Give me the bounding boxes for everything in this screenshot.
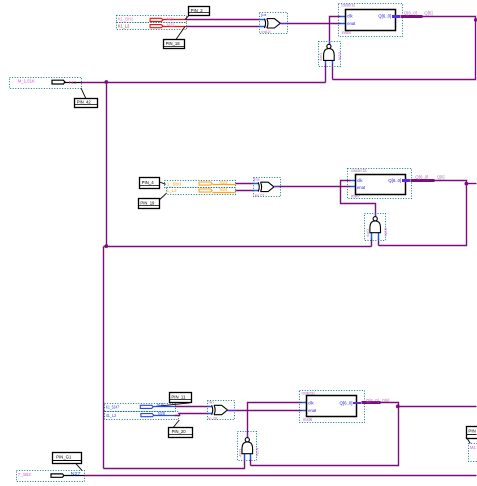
wire pin4 to xor2 in1 — [236, 183, 254, 185]
svg-text:Q[6..0]: Q[6..0] — [404, 11, 417, 16]
svg-text:PIN_20: PIN_20 — [172, 429, 187, 434]
nand2 input risers — [371, 239, 373, 247]
svg-text:clk: clk — [357, 178, 363, 183]
xor3 output stub — [228, 410, 236, 412]
nand gate U3 — [319, 42, 342, 67]
input pin PIN_4 symbol — [199, 180, 235, 185]
svg-text:4c0: 4c0 — [238, 449, 242, 457]
svg-text:Q[6]: Q[6] — [424, 11, 432, 16]
wire clock horizontal row3 — [104, 460, 245, 469]
bus Q[6..0] row1 — [401, 15, 423, 18]
svg-text:4c0: 4c0 — [319, 53, 323, 61]
svg-text:Q[6..0]: Q[6..0] — [378, 13, 391, 18]
callout PIN_18 — [164, 27, 185, 49]
svg-text:M1: M1 — [470, 445, 477, 450]
xor gate U4 — [253, 176, 281, 197]
counter U5 (counter:b2) — [348, 168, 412, 199]
input pin PIN_G1 symbol — [51, 471, 85, 477]
callout PIN_19 — [139, 193, 167, 209]
callout PIN_42 — [75, 88, 98, 107]
wire xor1 out to counter1 ena — [287, 23, 341, 25]
node clock highlight box — [10, 78, 82, 89]
nand1 input risers — [325, 65, 327, 83]
wire clock vertical lower — [103, 247, 105, 469]
counter U8 (counter:b3) — [300, 390, 365, 422]
counter3 Q port connector — [353, 402, 361, 404]
nand1 output stub — [329, 41, 331, 45]
svg-text:N26: N26 — [158, 411, 166, 416]
nand gate U9 — [238, 432, 260, 461]
xor gate U1 — [260, 12, 288, 34]
svg-text:K1_BH2: K1_BH2 — [118, 17, 134, 22]
svg-text:N1: N1 — [69, 80, 78, 85]
wire Q[6] tap row1 — [333, 17, 476, 80]
wire clock horizontal row2 — [104, 246, 372, 248]
svg-text:b2N: b2N — [337, 52, 341, 60]
bus Q[6..0] row3 — [362, 401, 381, 404]
svg-text:PIN_2: PIN_2 — [191, 8, 204, 13]
nand3 input risers — [250, 459, 252, 466]
wire xor3 out to counter3 ena — [236, 410, 302, 412]
svg-text:PIN_G1: PIN_G1 — [56, 455, 72, 460]
svg-text:Q[6..0]: Q[6..0] — [415, 175, 428, 180]
svg-text:1_5b0: 1_5b0 — [167, 181, 182, 186]
bus Q[6..0] row2 — [411, 179, 435, 182]
svg-text:clk: clk — [347, 13, 353, 18]
nand gate U6 — [365, 214, 388, 241]
svg-text:PIN_18: PIN_18 — [166, 41, 181, 46]
svg-text:4b: 4b — [208, 399, 214, 404]
svg-text:in.28: in.28 — [208, 415, 218, 420]
xor2 input stubs — [254, 183, 259, 185]
svg-text:Q[6]: Q[6] — [437, 175, 445, 180]
wire xor2 out to counter2 ena — [280, 186, 351, 188]
node clipped output highlight box — [469, 444, 477, 462]
svg-text:K1_5247: K1_5247 — [106, 405, 120, 410]
node key3 highlight boxes — [105, 404, 179, 420]
wire clock trunk horizontal row1 — [81, 82, 326, 84]
xor3 input stubs — [209, 406, 213, 408]
svg-text:M_1,51K: M_1,51K — [18, 79, 35, 84]
input pin PIN_20 symbol — [141, 411, 175, 417]
svg-text:N23: N23 — [220, 180, 229, 185]
callout PIN_20 — [169, 420, 193, 438]
wire pin19 to xor2 in2 — [236, 190, 254, 192]
svg-text:N21: N21 — [167, 16, 175, 21]
svg-text:PIN_11: PIN_11 — [171, 394, 186, 399]
counter2 Q port connector — [402, 179, 410, 182]
wire Q[6] tap row3 — [251, 403, 399, 466]
input pin PIN_18 symbol — [150, 23, 186, 28]
input pin PIN_42 symbol — [52, 80, 81, 85]
wire nand2 out to counter2 clk — [341, 181, 376, 214]
svg-text:Q[6..0]: Q[6..0] — [388, 178, 401, 183]
svg-text:clk: clk — [308, 401, 314, 406]
callout PIN (clipped) — [467, 427, 477, 444]
wire pin18 to xor1 in2 — [187, 26, 260, 28]
node key2 highlight boxes — [165, 181, 236, 195]
counter U2 (counter:b1) — [339, 3, 403, 37]
svg-text:N25: N25 — [157, 402, 165, 407]
input pin PIN_2 symbol — [150, 16, 186, 21]
svg-text:7_1B2: 7_1B2 — [18, 472, 32, 477]
nand2 output stub — [375, 214, 377, 217]
svg-text:counter:b2: counter:b2 — [301, 390, 315, 395]
svg-text:PIN_42: PIN_42 — [77, 100, 92, 105]
svg-text:enat: enat — [357, 185, 366, 190]
wire Q[6] tap row2 — [379, 181, 467, 246]
wire nand1 out to counter1 clk — [330, 17, 341, 41]
junction row1 right — [474, 18, 477, 22]
junction clock top — [104, 80, 108, 84]
wire pin20 to xor3 in2 — [175, 414, 209, 416]
counter1 Q port connector — [392, 15, 400, 18]
svg-text:PIN: PIN — [468, 429, 475, 434]
svg-text:b2N: b2N — [255, 448, 259, 456]
input pin PIN_19 symbol — [199, 187, 235, 192]
node bottom pin highlight box — [17, 471, 85, 482]
junction row3 right — [396, 405, 400, 409]
svg-text:ins.Of: ins.Of — [255, 192, 265, 197]
svg-text:counter:b1: counter:b1 — [341, 3, 355, 8]
wire pin11 to xor3 in1 — [175, 406, 209, 408]
node key1 highlight box (dotted) — [117, 16, 187, 30]
callout PIN_11 — [156, 393, 192, 407]
callout PIN_4 — [140, 178, 166, 189]
svg-text:inst2l: inst2l — [262, 29, 271, 34]
svg-text:K1_L2: K1_L2 — [118, 24, 130, 29]
svg-text:41_L2: 41_L2 — [106, 413, 117, 418]
callout PIN_G1 — [53, 453, 83, 471]
svg-text:b2N: b2N — [383, 228, 387, 236]
xor2 output stub — [275, 186, 280, 188]
svg-text:enat: enat — [347, 21, 356, 26]
svg-text:jia: jia — [253, 176, 261, 181]
input pin PIN_11 symbol — [140, 402, 174, 408]
wire pin2 to xor1 in1 — [187, 19, 260, 21]
svg-text:Q[6..0]: Q[6..0] — [366, 398, 379, 403]
svg-text:Q[6..0]: Q[6..0] — [340, 401, 353, 406]
junction clock middle — [104, 244, 108, 248]
wire clock vertical upper — [106, 83, 108, 247]
xor1 output stub — [281, 23, 287, 25]
svg-text:N22: N22 — [167, 23, 175, 28]
xor gate U7 — [208, 399, 235, 420]
wire bottom pin long net — [85, 475, 477, 477]
svg-text:N24: N24 — [220, 187, 229, 192]
svg-text:4c0: 4c0 — [366, 229, 370, 237]
wire nand3 out to counter3 clk — [248, 403, 302, 435]
svg-text:enat: enat — [308, 408, 317, 413]
svg-text:PIN_4: PIN_4 — [142, 180, 155, 185]
xor1 input stubs — [260, 19, 266, 21]
svg-text:PIN_19: PIN_19 — [140, 200, 155, 205]
svg-text:1_L2: 1_L2 — [167, 188, 178, 193]
nand3 output stub — [247, 435, 249, 438]
callout PIN_2 — [185, 7, 210, 20]
svg-text:counter:b3: counter:b3 — [351, 168, 367, 173]
junction row2 right — [465, 182, 469, 186]
svg-text:jia: jia — [260, 12, 268, 17]
svg-text:N27: N27 — [71, 471, 82, 476]
svg-text:inst6: inst6 — [303, 417, 313, 422]
